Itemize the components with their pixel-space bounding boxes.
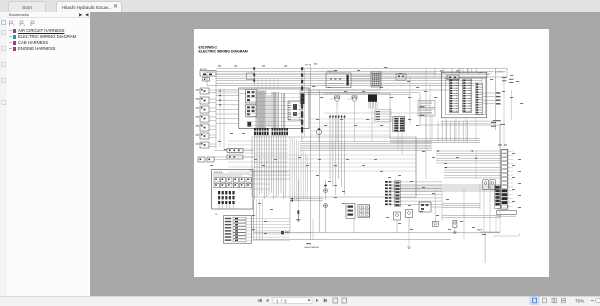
- junction panel U4 outline: [441, 72, 487, 118]
- ignition switch SW1: [326, 70, 351, 87]
- solenoid Y1: [432, 218, 438, 226]
- tab close button: [113, 3, 118, 10]
- riser bundle densify: [301, 149, 308, 199]
- pressure switch P1: [316, 128, 321, 141]
- battery B1 and fusible link box: [200, 68, 216, 81]
- tall routing verticals: [416, 69, 504, 197]
- bundle risers from CN4 ticks: [329, 116, 345, 196]
- power bus wires: [207, 68, 507, 85]
- scatter labels A: [218, 64, 523, 126]
- junction J1 column: [253, 67, 255, 86]
- central long horizontals 2: [254, 155, 416, 171]
- resistor R1 box: [497, 209, 517, 217]
- panel bottom exit wires: [441, 118, 501, 142]
- module M1 in cab box: [246, 90, 258, 104]
- link wires upper mid: [240, 73, 390, 139]
- arrow wires to relays: [290, 198, 323, 202]
- band small box: [396, 74, 406, 80]
- control unit U3: [346, 204, 355, 219]
- svg-text:1 / 2: 1 / 2: [276, 298, 287, 303]
- bookmark toolbar icons: [7, 20, 47, 27]
- center cross bundle: [300, 142, 432, 151]
- svg-text:ALTERNATOR: ALTERNATOR: [495, 71, 506, 74]
- fuse box FB1: [212, 170, 253, 210]
- svg-text:75%: 75%: [575, 298, 584, 303]
- connector CN1 CN2 band (dark): [254, 128, 288, 135]
- panel output stubs: [482, 77, 513, 104]
- lower connector stack CN9: [495, 185, 501, 209]
- svg-text:BATTERY: BATTERY: [200, 68, 208, 71]
- relay K2: [324, 180, 328, 200]
- link wires upper right: [435, 68, 482, 81]
- start tab: [8, 1, 46, 13]
- active document tab: [56, 1, 122, 12]
- labels above CN5: [491, 122, 507, 145]
- panel connector column C: [476, 83, 483, 115]
- lower long verticals: [435, 185, 480, 240]
- relay K7: [348, 96, 357, 107]
- junction J2 column: [301, 67, 305, 141]
- harness bundle right: [390, 185, 501, 217]
- long center horizontals: [300, 90, 450, 121]
- solenoid Y2: [453, 220, 457, 233]
- stack CN10: [395, 181, 401, 207]
- center web horizontals: [310, 119, 390, 135]
- solenoid Y3: [394, 212, 401, 233]
- bottom right verticals: [476, 151, 496, 233]
- connector pair rows CN6: [385, 181, 442, 205]
- left device wires to bus: [216, 75, 239, 150]
- left pair boxes low: [198, 157, 227, 162]
- label cluster fuses: [375, 110, 392, 122]
- right tall verticals: [463, 68, 512, 130]
- bottom right label: [477, 229, 500, 233]
- center risers to bundle: [337, 107, 426, 154]
- bookmark item: AIR CIRCUIT HARNESS: [13, 29, 16, 33]
- bookmark item: ENGINE HARNESS: [13, 47, 16, 51]
- connector CN8 (dark grid): [393, 117, 405, 132]
- bottom bus wire: [254, 125, 520, 263]
- relay block K1 (hatched): [371, 72, 381, 87]
- left device stack (switch/relay column): [196, 88, 217, 148]
- svg-text:EARTH: EARTH: [477, 229, 482, 232]
- svg-text:CN: CN: [497, 209, 499, 211]
- tab bar: [0, 0, 600, 13]
- module M3 in cab box: [247, 122, 251, 127]
- wire top right runs: [351, 68, 507, 81]
- bus label tick: [306, 243, 311, 244]
- connector CN7 (dark block): [368, 94, 377, 108]
- svg-text:CHASSIS HARNESS: CHASSIS HARNESS: [304, 246, 319, 249]
- monitor unit U5: [418, 100, 435, 108]
- document area: [90, 12, 600, 296]
- scatter labels B: [210, 133, 521, 234]
- cab box internal harness: [246, 90, 304, 129]
- arrowheads on stack wires: [218, 90, 221, 105]
- page sheet: [194, 29, 549, 277]
- fuse F1 box: [447, 71, 506, 80]
- routing corner wires: [324, 113, 500, 147]
- bookmark tree lines: [9, 30, 12, 31]
- bottom left stub: [290, 232, 311, 234]
- panel riser comb below U4: [438, 121, 467, 142]
- module M4 in cab box: [288, 101, 302, 120]
- bookmark item: CAB HARNESS: [13, 41, 16, 45]
- wires device stack to cab box: [216, 91, 239, 123]
- svg-text:CN: CN: [215, 214, 217, 216]
- title text EX100WD-2: [199, 45, 248, 53]
- cab console box U2: [239, 88, 309, 129]
- wiring diagram: [194, 29, 549, 277]
- ground G1: [296, 210, 300, 222]
- monitor unit U6: [418, 109, 435, 116]
- status bar: [0, 296, 600, 306]
- small box mid bottom: [419, 202, 442, 212]
- panel connector column B: [463, 79, 472, 113]
- junction box JB1: [247, 73, 255, 80]
- harness into CN5: [436, 150, 501, 178]
- svg-text:FUSE BOX: FUSE BOX: [214, 172, 223, 174]
- panel connector column A: [450, 79, 459, 113]
- relay K4 K5: [483, 180, 496, 190]
- bus drops into cab box: [258, 79, 278, 89]
- diode block D1: [214, 149, 254, 153]
- relay K6: [330, 96, 340, 107]
- connector column CN5: [501, 149, 513, 209]
- solenoid Y4: [406, 210, 413, 249]
- module M2 in cab box: [246, 105, 258, 116]
- svg-text:KEY SW: KEY SW: [305, 65, 312, 67]
- diode block D2: [214, 155, 254, 159]
- center region enclosure box: [252, 137, 416, 197]
- link verticals mid page: [410, 77, 500, 149]
- bookmark item: ELECTRIC WIRING DIAGRAM: [13, 35, 16, 39]
- main harness bundle below CN1: [228, 135, 288, 240]
- riser wires x96-116: [290, 137, 299, 233]
- page navigation controls: [255, 296, 355, 305]
- arrowheads bundle CN5: [470, 150, 477, 159]
- connector strip CN3 with pigtails: [215, 214, 290, 243]
- left navigation rail: [0, 12, 8, 296]
- dark blob right edge of cab box: [301, 93, 305, 104]
- terminal grid TB1: [358, 205, 370, 218]
- key switch feed wire: [305, 65, 320, 232]
- relay K3: [324, 204, 328, 233]
- fusebox link wires: [249, 171, 290, 189]
- panel riser comb above U4: [444, 68, 468, 74]
- svg-text:ELECTRIC WIRING DIAGRAM: ELECTRIC WIRING DIAGRAM: [199, 49, 248, 53]
- bookmarks panel: [7, 12, 90, 296]
- zoom controls: [528, 296, 600, 305]
